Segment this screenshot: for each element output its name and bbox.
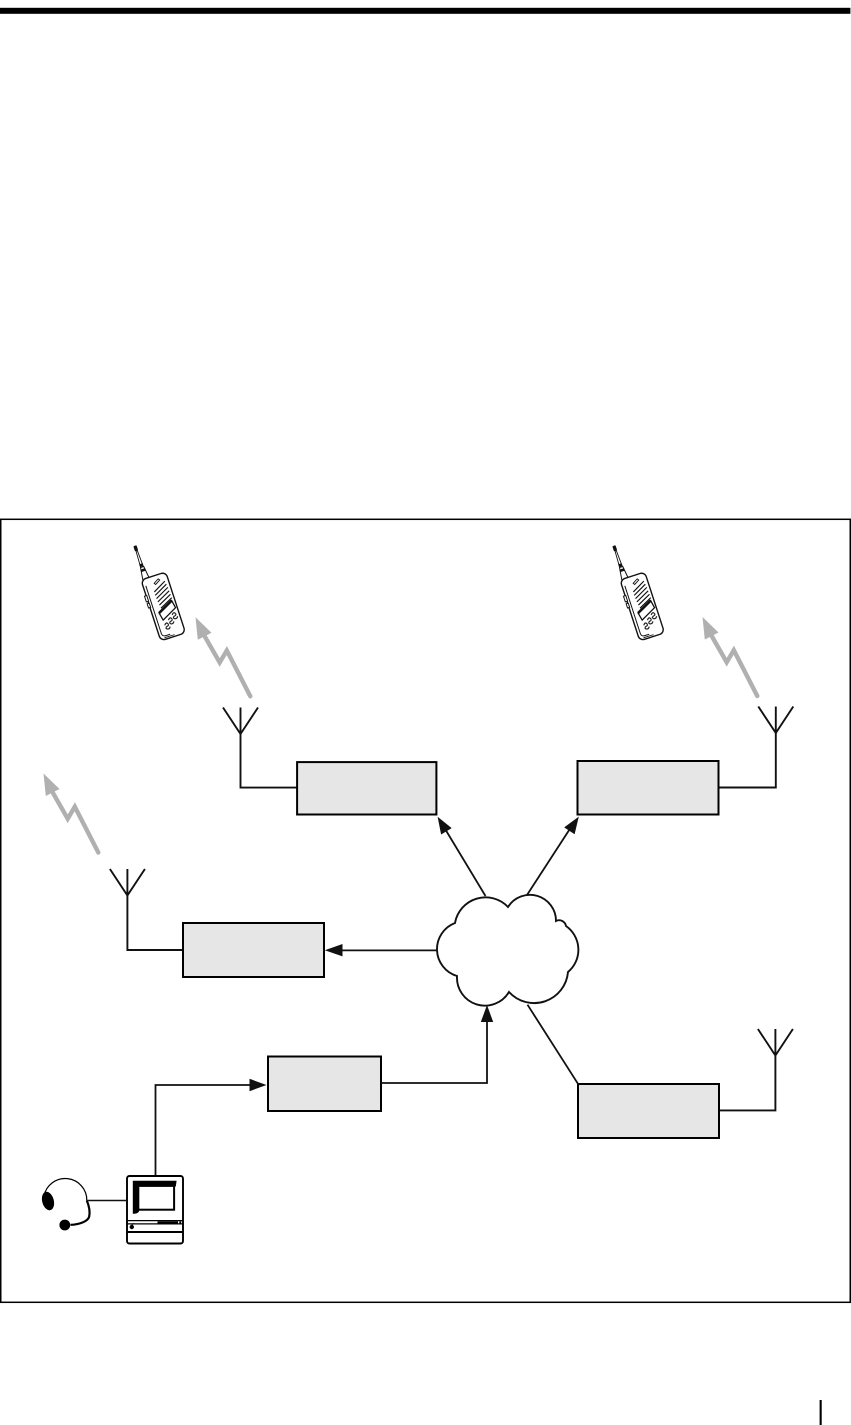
page footer tick — [820, 1400, 822, 1425]
RF bolt arrow 3 (far left) — [44, 774, 99, 853]
wire headset to computer — [87, 1200, 127, 1202]
line cloud to box 5 — [528, 1005, 579, 1085]
wire antenna 2 to base station 2 — [719, 733, 776, 788]
antenna 2 (top right) — [758, 707, 793, 735]
figure frame — [1, 519, 851, 1302]
portable radio 2 (top right) — [608, 539, 665, 641]
arrow cloud to box 2 — [527, 817, 579, 895]
operator headset — [40, 1179, 90, 1231]
top black bar — [0, 8, 850, 14]
portable radio 1 (top left) — [129, 539, 186, 641]
base station box 3 (middle left) — [183, 923, 324, 977]
antenna 3 (middle left) — [110, 869, 145, 897]
wire antenna 1 to base station 1 — [241, 734, 299, 788]
arrow box 4 to cloud — [381, 1005, 493, 1083]
arrow cloud to box 1 — [438, 817, 486, 896]
base station box 5 (bottom right) — [578, 1084, 719, 1138]
console interface box 4 (bottom center) — [268, 1057, 381, 1112]
wire antenna 3 to base station 3 — [127, 896, 183, 951]
wire antenna 4 to base station 5 — [718, 1056, 776, 1110]
RF bolt arrow 1 (to radio 1) — [196, 617, 251, 696]
antenna 4 (bottom right) — [758, 1029, 793, 1057]
base station box 1 (top left) — [297, 762, 436, 814]
RF bolt arrow 2 (to radio 2) — [703, 617, 758, 696]
base station box 2 (top right) — [578, 761, 719, 815]
wire console PC to box 4 — [156, 1079, 267, 1176]
console computer — [127, 1176, 183, 1244]
antenna 1 (top left) — [223, 708, 258, 736]
arrow cloud to box 3 — [325, 944, 437, 956]
network cloud — [437, 895, 578, 1006]
